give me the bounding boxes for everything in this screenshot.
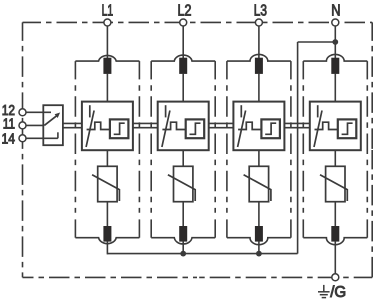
- bottom connection terminal (black) L2: [179, 226, 187, 242]
- thermal disconnector with monitoring L1 (box, switch contact, trip tick, step-response link and indicator box): [82, 102, 133, 151]
- bottom connection terminal (black) L3: [255, 226, 263, 242]
- svg-text:N: N: [331, 2, 340, 19]
- wire disconnector to varistor L3: [258, 150, 260, 168]
- wire disconnector to varistor L2: [182, 150, 184, 168]
- enclosure border right (dash-dot): [371, 22, 373, 277]
- SPD plug-in module outline L2 (dash-dot box with wire hops): [151, 55, 215, 244]
- svg-text:L1: L1: [102, 2, 114, 19]
- SPD plug-in module outline L1 (dash-dot box with wire hops): [75, 55, 139, 243]
- svg-text:11: 11: [3, 117, 15, 133]
- wire L1 varistor common down to bus: [106, 241, 108, 254]
- thermal disconnector with monitoring L2 (box, switch contact, trip tick, step-response link and indicator box): [158, 102, 209, 151]
- wire varistor to bottom terminal L2: [182, 201, 184, 227]
- junction dot bus at L2: [180, 251, 186, 257]
- NO contact hook 14: [57, 132, 59, 138]
- svg-text:14: 14: [2, 132, 16, 148]
- ground label /G: [330, 284, 346, 301]
- wire top terminal to disconnector L3: [258, 73, 260, 102]
- ground symbol (earth): [318, 285, 330, 298]
- wire N varistor common to PE/G terminal: [334, 241, 336, 274]
- enclosure border left (dash-dot): [22, 22, 24, 277]
- enclosure border bottom (dash-dot): [23, 276, 373, 278]
- thermal disconnector with monitoring N (box, switch contact, trip tick, step-response link and indicator box): [310, 102, 361, 151]
- bottom connection terminal (black) L1: [103, 226, 111, 242]
- mechanical linkage (double line) module L3 to N: [284, 123, 309, 127]
- terminal label 11: [3, 117, 15, 133]
- svg-text:L2: L2: [178, 2, 192, 19]
- terminal L1 (open circle on border): [104, 19, 111, 26]
- wire disconnector to varistor L1: [106, 150, 108, 168]
- terminal label N: [331, 2, 340, 19]
- top connection terminal (black) L3: [255, 58, 263, 74]
- svg-text:L3: L3: [254, 2, 267, 19]
- junction dot bus at L3: [256, 251, 262, 257]
- wire top terminal to disconnector L2: [182, 73, 184, 102]
- enclosure border top (dash-dot): [23, 21, 373, 23]
- terminal 14 (open circle on border): [19, 135, 26, 142]
- wire L2 terminal to top connection: [182, 26, 184, 59]
- wire 11 common to changeover contact: [26, 124, 44, 126]
- terminal PE/G (open circle on border): [332, 274, 339, 281]
- wire varistor to bottom terminal L1: [106, 201, 108, 227]
- wire L3 terminal to top connection: [258, 26, 260, 59]
- changeover contact blade with arrow: [44, 113, 60, 126]
- mechanical linkage (double line) module L2 to L3: [209, 123, 234, 127]
- wire top terminal to disconnector L1: [106, 73, 108, 102]
- junction dot node N: [332, 39, 338, 45]
- terminal L3 (open circle on border): [255, 19, 262, 26]
- mechanical linkage (double line) remote contact to module L1: [63, 123, 82, 127]
- terminal label L2: [178, 2, 192, 19]
- wire N terminal down through node to top connection: [334, 26, 336, 59]
- terminal L2 (open circle on border): [180, 19, 187, 26]
- terminal 11 (open circle on border): [19, 122, 26, 129]
- terminal label 12: [2, 103, 15, 119]
- terminal label L3: [254, 2, 267, 19]
- bottom connection terminal (black) N: [331, 226, 339, 242]
- varistor L3 (MOV rectangle with diagonal): [244, 166, 271, 201]
- mechanical linkage (double line) module L1 to L2: [133, 123, 158, 127]
- wire bus riser to N node: [297, 42, 299, 254]
- top connection terminal (black) L2: [179, 58, 187, 74]
- top connection terminal (black) L1: [103, 58, 111, 74]
- SPD plug-in module outline L3 (dash-dot box with wire hops): [227, 54, 291, 244]
- thermal disconnector with monitoring L3 (box, switch contact, trip tick, step-response link and indicator box): [233, 102, 284, 151]
- varistor L1 (MOV rectangle with diagonal): [92, 166, 119, 201]
- svg-text:/G: /G: [330, 284, 346, 301]
- varistor N (MOV rectangle with diagonal): [320, 166, 347, 201]
- terminal N (open circle on border): [332, 19, 339, 26]
- remote contact box FM: [43, 105, 63, 145]
- wire L2 varistor common down to bus: [182, 241, 184, 254]
- wire varistor to bottom terminal L3: [258, 201, 260, 227]
- wire varistor to bottom terminal N: [334, 201, 336, 227]
- wire L1 terminal to top connection: [106, 26, 108, 59]
- terminal 12 (open circle on border): [19, 109, 26, 116]
- varistor L2 (MOV rectangle with diagonal): [168, 166, 195, 201]
- wire N node branch horizontal: [298, 41, 336, 43]
- terminal label L1: [102, 2, 114, 19]
- wire PE/N bus horizontal (varistor commons): [107, 253, 297, 255]
- wire top terminal to disconnector N: [334, 73, 336, 102]
- wire L3 varistor common down to bus: [258, 241, 260, 254]
- wire disconnector to varistor N: [334, 150, 336, 168]
- wire 14 to NO contact: [26, 137, 58, 139]
- wire 12 to NC contact: [26, 111, 51, 113]
- SPD plug-in module outline N (dash-dot box with wire hops): [303, 54, 367, 244]
- top connection terminal (black) N: [331, 58, 339, 74]
- terminal label 14: [2, 132, 16, 148]
